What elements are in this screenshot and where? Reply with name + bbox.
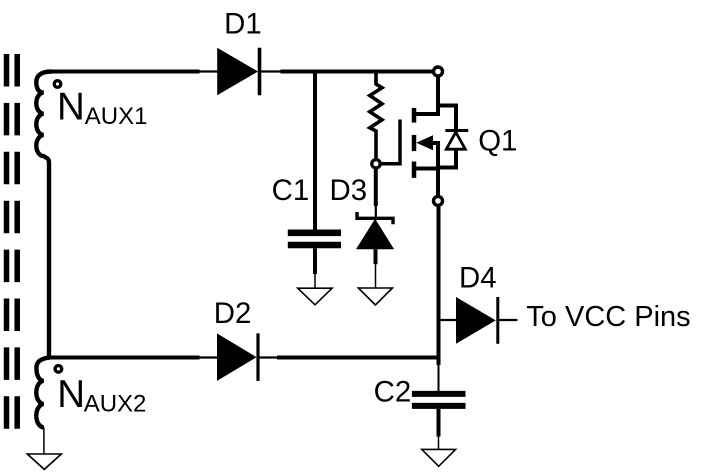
svg-text:D4: D4 [459, 262, 497, 295]
svg-text:N: N [57, 86, 85, 129]
svg-text:D3: D3 [330, 174, 368, 207]
svg-text:D2: D2 [214, 297, 252, 330]
svg-text:To VCC Pins: To VCC Pins [526, 301, 690, 333]
svg-text:D1: D1 [224, 7, 262, 40]
svg-text:Q1: Q1 [478, 125, 517, 158]
svg-text:AUX2: AUX2 [84, 390, 147, 417]
svg-text:AUX1: AUX1 [85, 103, 148, 130]
svg-text:N: N [57, 373, 85, 416]
svg-text:C2: C2 [374, 376, 412, 409]
svg-text:C1: C1 [272, 174, 310, 207]
